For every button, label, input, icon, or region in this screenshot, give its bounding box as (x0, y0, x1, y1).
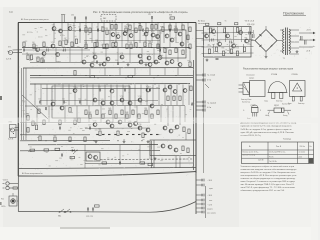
wire mid rail (30, 62, 160, 64)
connector XT2 outline box (10, 125, 17, 138)
scan mark left edge (0, 96, 2, 100)
svg-text:номинальном входном сигнале: номинальном входном сигнале обеспечивает… (241, 169, 297, 171)
transistor VT2c (146, 88, 150, 92)
junction dot (141, 140, 142, 141)
transistor VT26a (156, 35, 160, 39)
junction dot (157, 22, 158, 23)
svg-text:R40: R40 (148, 41, 151, 43)
svg-text:R31: R31 (129, 42, 132, 44)
svg-text:R45: R45 (108, 108, 111, 110)
resistor R66 (99, 131, 101, 136)
wire bus lower 1 (20, 134, 90, 136)
wire speaker stub 3 (196, 101, 204, 103)
transistor VT10 (120, 98, 124, 102)
transistor VT31 (120, 55, 124, 59)
transistor VT30 (138, 126, 142, 130)
transistor VT74 (165, 61, 169, 65)
transistor VT24 (118, 120, 122, 124)
svg-text:~ 12 В: ~ 12 В (207, 205, 213, 207)
bypass component on top edge 2 (218, 23, 221, 25)
wire (74, 85, 76, 106)
svg-text:новлены на общем радиаторе: новлены на общем радиаторе со слюдяными … (241, 178, 296, 180)
bridge diode tick 2 (271, 34, 273, 36)
scan smudge bottom (60, 227, 110, 229)
wire filter stub 2 (92, 211, 94, 213)
svg-text:С2 0,5: С2 0,5 (38, 37, 43, 39)
junction dot (175, 47, 176, 48)
wire (119, 145, 121, 163)
svg-text:846: 846 (9, 11, 14, 14)
wire (124, 106, 126, 122)
ground under psu (206, 59, 209, 62)
junction dot (187, 47, 188, 48)
terminal pin 4 (196, 199, 204, 202)
capacitor C14 (124, 89, 125, 92)
wire (133, 23, 135, 47)
resistor R32 (144, 42, 146, 47)
svg-text:НL1: НL1 (1, 199, 4, 201)
wire (103, 23, 105, 43)
svg-text:База: База (288, 103, 292, 105)
transistor VT21 (129, 34, 133, 38)
svg-text:SА2: SА2 (103, 17, 106, 20)
wire row lower a (40, 99, 158, 101)
resistor R76 (179, 96, 181, 101)
wire secondary tap 5 (289, 53, 299, 55)
wire (182, 85, 184, 106)
transistor VT49 (94, 156, 98, 160)
resistor R73 (182, 50, 184, 55)
svg-text:корпус: корпус (249, 78, 254, 80)
wire (169, 23, 171, 47)
resistor R23 (162, 27, 164, 32)
resistor R16 (125, 28, 127, 33)
transistor VT66 (102, 62, 106, 66)
wire (122, 85, 124, 106)
svg-text:R90: R90 (205, 33, 208, 35)
top edge capacitor C30 (74, 17, 75, 20)
svg-text:2х20 Вт на нагрузке 4 Ом;: 2х20 Вт на нагрузке 4 Ом; уровень фона и… (241, 128, 293, 131)
wire (149, 68, 151, 76)
transistor VT60 (239, 31, 243, 35)
resistor R50 (138, 114, 140, 119)
capacitor C35 (61, 154, 62, 157)
ground bridge (265, 55, 268, 58)
wire (67, 23, 69, 43)
capacitor C28 (301, 36, 303, 41)
transistor VT58 (232, 44, 236, 48)
wire diagonal interconnect (22, 95, 48, 119)
wire (139, 145, 141, 163)
transformer T1 core line 1 (285, 28, 287, 56)
resistor R59 (59, 120, 61, 125)
resistor R84 (148, 163, 153, 165)
capacitor C5 (97, 29, 98, 32)
resistor R39 (135, 43, 137, 48)
resistor R89g (188, 129, 190, 134)
wire (139, 23, 141, 43)
junction dot (93, 140, 94, 141)
wire bridge bottom drop (265, 52, 267, 56)
resistor R94 (236, 51, 238, 56)
wire (46, 85, 48, 106)
resistor R30 (115, 42, 117, 47)
wire (249, 27, 251, 42)
pinout diode lead left (268, 109, 275, 111)
junction dot (175, 75, 176, 76)
resistor R25 (175, 28, 177, 33)
svg-text:Усилитель мощности собран н: Усилитель мощности собран на печатной пл… (241, 165, 295, 168)
wire (165, 48, 167, 62)
wire bridge top drop (265, 26, 267, 30)
wire speaker stub 1 (196, 74, 204, 76)
svg-text:R96: R96 (245, 38, 248, 40)
wire (81, 48, 83, 62)
transistor VT27 (93, 55, 97, 59)
resistor R2 (30, 55, 32, 60)
svg-text:С22 С23: С22 С23 (86, 216, 93, 218)
capacitor C26 (249, 32, 250, 35)
wire (167, 106, 169, 126)
terminal block vertical (195, 173, 197, 214)
svg-text:20 кГц при КНИ не бо-: 20 кГц при КНИ не бо- (269, 152, 286, 154)
svg-text:хуже -80 дБ; чувствительност: хуже -80 дБ; чувствительность входа 0,25… (241, 132, 295, 134)
wire speaker stub 5 (196, 109, 204, 111)
wire vertical left pair 3 (23, 68, 25, 140)
capacitor C22 (87, 208, 88, 211)
wire (177, 68, 179, 76)
transistor VT8 (110, 101, 114, 105)
svg-text:Полоса частот 20 Гц...: Полоса частот 20 Гц... (243, 152, 260, 154)
transistor VT22 (110, 124, 114, 128)
wire (97, 23, 99, 47)
svg-text:База: База (265, 101, 269, 103)
resistor R40 (74, 71, 76, 76)
protection relay box K1 (86, 152, 100, 161)
transformer T1 secondary winding (289, 29, 290, 53)
ground (147, 140, 150, 143)
pinout diode band (281, 108, 283, 112)
wire (217, 27, 219, 42)
capacitor C24 (212, 39, 213, 42)
svg-text:VТ51: VТ51 (212, 28, 216, 30)
svg-text:VT5: VT5 (51, 42, 54, 44)
svg-text:не более: не более (299, 152, 306, 154)
amplifier board inner right bus (192, 60, 194, 170)
terminal arrow 0 (309, 39, 316, 41)
svg-text:КТ802А: КТ802А (292, 73, 299, 76)
svg-text:Основание: Основание (246, 75, 255, 77)
wire (146, 85, 148, 106)
junction dot (133, 22, 134, 23)
dashed ground bus (100, 158, 193, 160)
resistor R12 (102, 27, 104, 32)
transistor VT42 (163, 88, 167, 92)
svg-text:Таблица: Таблица (283, 138, 292, 140)
transistor VT25 (151, 33, 155, 37)
supply rail upper channel (22, 47, 190, 49)
svg-text:А1 Блок усилителя мощности: А1 Блок усилителя мощности (21, 18, 49, 21)
svg-text:Гр. правый: Гр. правый (207, 102, 216, 105)
resistor R11 (89, 28, 91, 33)
resistor R42 (89, 114, 91, 119)
wire (202, 39, 254, 42)
svg-text:VT25: VT25 (151, 31, 155, 33)
table cell r5c4 dark (309, 159, 313, 164)
wire (69, 48, 71, 62)
svg-text:С16: С16 (58, 125, 61, 127)
transistor VT47 (174, 148, 178, 152)
svg-text:VT9: VT9 (52, 25, 55, 27)
wire (157, 23, 159, 47)
transistor VT34 (165, 34, 169, 38)
capacitor C21 (119, 162, 120, 165)
resistor R4 (33, 44, 35, 49)
svg-text:прав.: прав. (209, 188, 214, 190)
transistor VT44 (168, 85, 172, 89)
svg-text:А3 Блок выпрямителя: А3 Блок выпрямителя (22, 172, 42, 175)
transistor VT46 (173, 90, 177, 94)
wire row upper a (52, 30, 160, 32)
resistor R91 (215, 47, 217, 52)
table column line (267, 142, 269, 164)
transistor VT18 (93, 123, 97, 127)
transistor VT64 (82, 60, 86, 64)
indicator lamp HL1 (11, 199, 16, 204)
resistor R77 (182, 146, 184, 151)
wire box to bottom 2 (179, 156, 181, 168)
underline for Приложение (283, 15, 306, 17)
ground (123, 140, 126, 143)
transformer T1 primary winding (283, 29, 284, 53)
wire stub above top edge (61, 15, 63, 23)
capacitor C33 (117, 62, 118, 65)
wire (79, 23, 81, 43)
switch SA1 contact a (59, 209, 65, 213)
svg-text:С17: С17 (88, 125, 91, 127)
junction dot (115, 47, 116, 48)
wire (151, 23, 153, 43)
terminal pin 3 (196, 194, 204, 197)
wire (187, 23, 189, 43)
wire (158, 85, 160, 106)
resistor R67 (117, 131, 119, 136)
resistor R45 (109, 110, 111, 115)
pinout KT802 pin 1 (292, 97, 294, 102)
wire row lower c (85, 127, 150, 129)
transformer T1 core line 2 (286, 28, 288, 56)
resistor R28 (96, 42, 98, 47)
transistor VT67 (139, 60, 143, 64)
pinout KT315 leg 1 (252, 113, 254, 117)
pinout KT315 leg 3 (256, 113, 258, 117)
junction dot (154, 83, 155, 84)
wire (92, 85, 94, 106)
transistor VT32 (146, 128, 150, 132)
svg-text:Рис. 2. Принципиальная схема: Рис. 2. Принципиальная схема усилителя м… (93, 10, 188, 14)
pinout KT315 leg 2 (254, 113, 256, 117)
wire (202, 46, 254, 49)
svg-text:R3: R3 (45, 30, 47, 32)
resistor R33 (157, 44, 159, 49)
transistor VT38 (178, 32, 182, 36)
wire speaker stub 2 (196, 79, 204, 81)
wire (117, 48, 119, 62)
junction dot (109, 22, 110, 23)
capacitor C3 (64, 49, 65, 52)
wire (40, 85, 42, 106)
pinout KT802 body (290, 81, 306, 97)
transistor VT20 (106, 120, 110, 124)
bypass component on top edge 1 (206, 23, 209, 25)
wire (110, 85, 112, 106)
svg-text:ками. Катушка L1 намотана: ками. Катушка L1 намотана на резисторе R… (241, 181, 296, 183)
svg-text:R98: R98 (222, 48, 225, 50)
transistor VT54 (218, 42, 222, 46)
resistor R5 (43, 42, 45, 47)
resistor R71 (169, 50, 171, 55)
transistor VT5 (51, 44, 55, 48)
pinout KT908 dome (269, 82, 287, 93)
supply bus line 1 (30, 74, 193, 76)
svg-text:VТ57: VТ57 (208, 46, 212, 48)
wire amp to psu 3 (196, 46, 204, 48)
svg-text:VT33: VT33 (147, 54, 151, 56)
capacitor C12 (79, 101, 80, 104)
resistor R18 (135, 28, 137, 33)
transistor VT31a (138, 54, 142, 58)
wire output rail (20, 149, 160, 151)
pinout diode body (274, 108, 284, 112)
svg-text:жит 40 витков провода ПЭВ-: жит 40 витков провода ПЭВ-2 0,8 в два сл… (241, 184, 295, 186)
amplifier board outline A1 right edge (195, 23, 197, 174)
svg-text:R4: R4 (32, 42, 34, 44)
resistor R52 (151, 114, 153, 119)
wire (181, 23, 183, 47)
lower channel mid rail (25, 105, 185, 107)
wire lamp stub to bus (17, 200, 18, 202)
transistor VT48 (88, 155, 92, 159)
pinout KT908 base line (268, 92, 288, 94)
resistor R29 (106, 44, 108, 49)
wire (34, 85, 36, 106)
junction dot (85, 22, 86, 23)
capacitor C16 (59, 127, 60, 130)
junction dot (133, 75, 134, 76)
capacitor C29 (305, 40, 307, 45)
wire primary top (280, 29, 284, 31)
junction dot (85, 75, 86, 76)
resistor R10 (85, 28, 87, 33)
transistor VT29 (106, 57, 110, 61)
wire speaker stub 4 (196, 105, 204, 107)
resistor R86 (44, 149, 49, 151)
capacitor C34 (45, 107, 46, 110)
junction dot (103, 47, 104, 48)
svg-text:0,25 В: 0,25 В (8, 139, 14, 141)
top edge resistor R88 (170, 17, 175, 19)
output stage box upper (160, 30, 186, 58)
resistor R46 (115, 114, 117, 119)
svg-text:Эмиттер База: Эмиттер База (241, 99, 251, 101)
transistor VT36 (170, 38, 174, 42)
wire fuse to bus (16, 187, 19, 189)
table row line (242, 149, 314, 151)
capacitor C1 (23, 49, 24, 52)
wire amp to psu 2 (196, 38, 204, 40)
wire (164, 68, 166, 76)
transistor VT17 (116, 35, 120, 39)
svg-text:R66: R66 (98, 129, 101, 131)
connector XS1 input left (8, 50, 23, 55)
svg-text:С3: С3 (63, 47, 65, 49)
wire lower channel rail (42, 87, 160, 89)
resistor R8 (71, 42, 73, 47)
svg-text:С14: С14 (123, 87, 126, 89)
capacitor C36 above edge (85, 17, 86, 20)
junction dot (163, 47, 164, 48)
wire (153, 48, 155, 62)
svg-text:Реж. В: Реж. В (276, 146, 282, 148)
amplifier board outline A1 top edge (18, 22, 196, 24)
ground psu out (296, 50, 299, 53)
transistor VT70 (163, 126, 167, 130)
svg-text:типа РЭС-9; трансформатор Т: типа РЭС-9; трансформатор Т1 - ТС-160 со… (241, 186, 296, 189)
terminal pin 1 (196, 179, 204, 182)
pinout KT818 pin 3 (239, 91, 244, 93)
svg-text:VT21: VT21 (129, 32, 133, 34)
svg-text:гармоник не более 0,2 %; н: гармоник не более 0,2 %; ном. выходная м… (241, 126, 293, 128)
resistor R89e (41, 58, 43, 63)
svg-text:ния выпрямителя ±31 В. Все: ния выпрямителя ±31 В. Все мощные транзи… (241, 175, 298, 177)
svg-text:К: К (260, 110, 261, 112)
transistor VT11 (59, 29, 63, 33)
resistor R89a (187, 35, 189, 40)
capacitor C13 (99, 89, 100, 92)
svg-text:2/4 Ом: 2/4 Ом (300, 146, 306, 148)
resistor R65 (84, 137, 86, 142)
wire (185, 132, 187, 140)
lower channel sub-box (52, 86, 130, 118)
diode VD9 (70, 149, 75, 152)
wire vertical left pair 2 (25, 68, 27, 140)
resistor R14 (111, 25, 113, 30)
wire psu col extra 1 (213, 44, 215, 53)
wire psu out 1 (299, 32, 309, 34)
resistor R40 (149, 43, 151, 48)
svg-text:0,25 В: 0,25 В (6, 59, 12, 61)
transistor VT76 (178, 63, 182, 67)
wire (129, 48, 131, 62)
wire secondary tap 3 (289, 41, 299, 43)
svg-text:от сети 220 В, 50 Гц.: от сети 220 В, 50 Гц. (241, 135, 262, 137)
terminal pin 5 (196, 203, 204, 206)
wire (128, 85, 130, 106)
resistor R34 (85, 44, 87, 49)
upper channel box bottom (23, 67, 193, 69)
transistor VT62 (245, 39, 249, 43)
junction dot (151, 47, 152, 48)
capacitor C7 (159, 49, 160, 52)
wire (119, 68, 121, 76)
arrow mark (73, 150, 78, 154)
transistor VT50 (205, 34, 209, 38)
wire (160, 106, 162, 122)
resistor R83 (140, 162, 145, 164)
wire box to bottom 1 (175, 156, 177, 168)
junction dot (130, 83, 131, 84)
amplifier board bottom edge second line (18, 172, 196, 177)
